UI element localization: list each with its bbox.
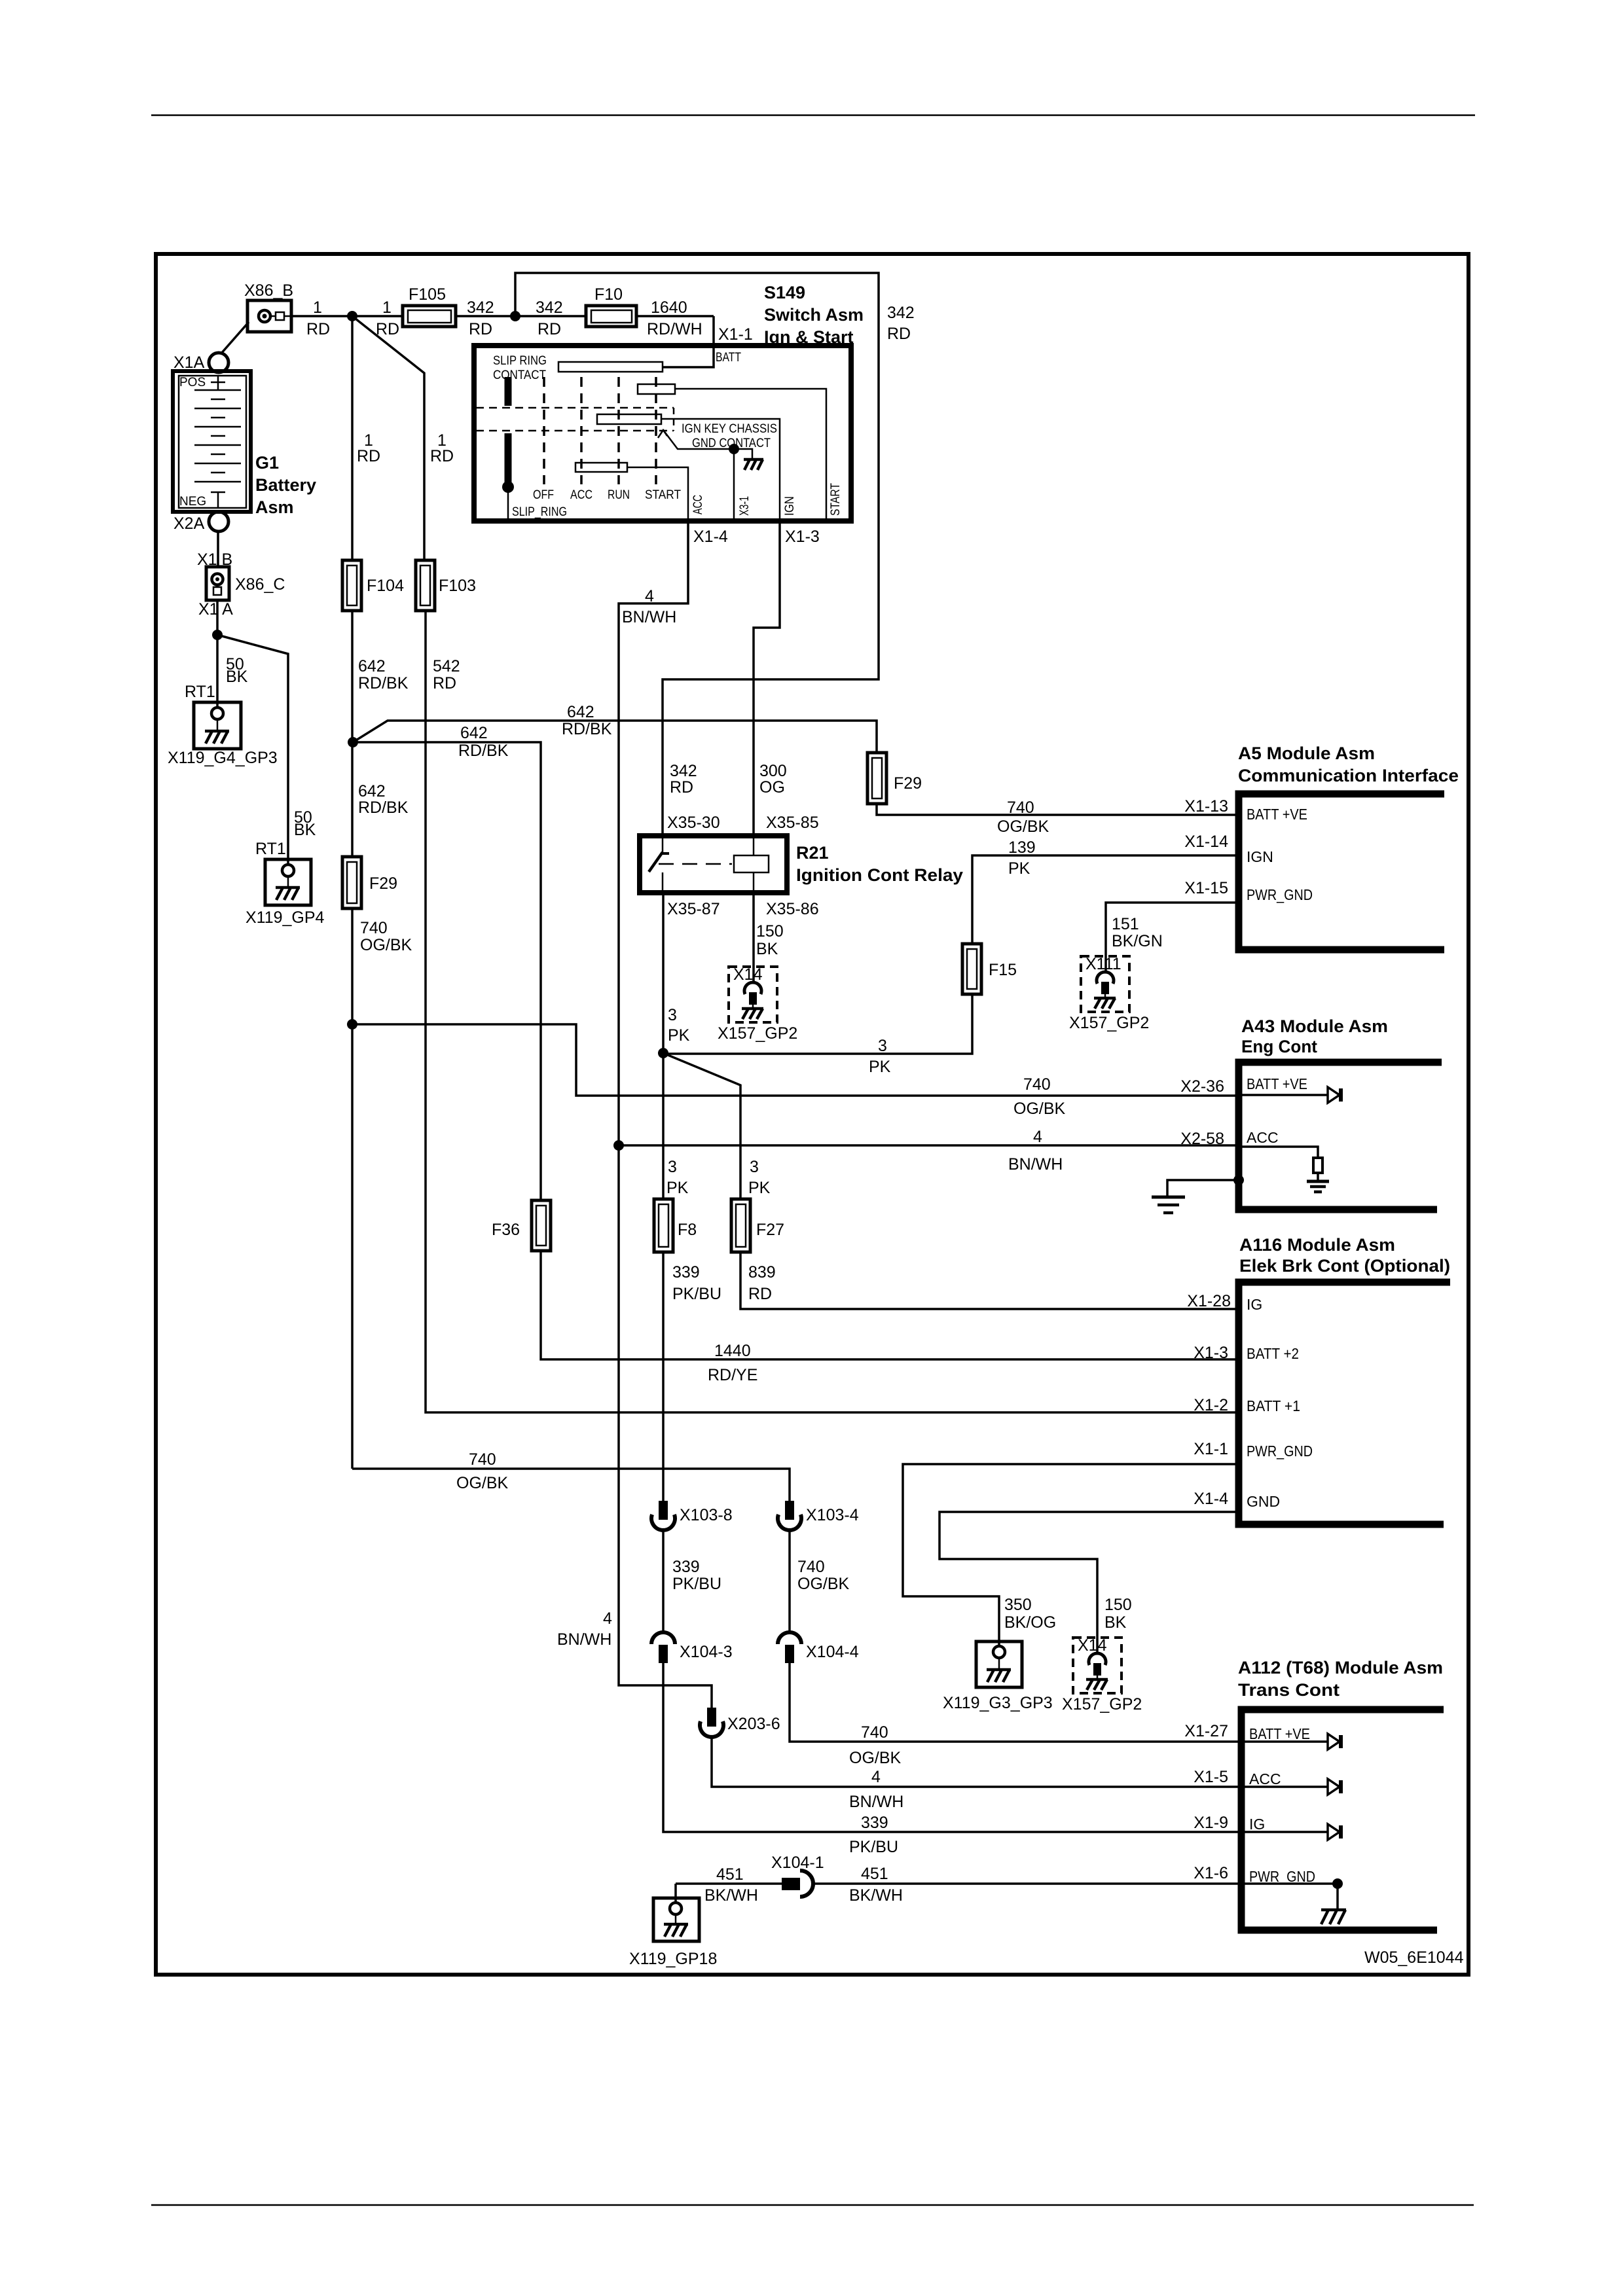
svg-text:A43 Module Asm: A43 Module Asm <box>1241 1016 1388 1036</box>
wire 3 PK to F8 <box>662 1053 665 1199</box>
svg-text:PK/BU: PK/BU <box>672 1285 721 1303</box>
svg-text:X86_C: X86_C <box>235 575 285 594</box>
svg-text:RD: RD <box>538 320 561 338</box>
wire 451 BK/WH to A112 X1-6 <box>812 1882 1239 1885</box>
svg-text:X1-14: X1-14 <box>1184 833 1228 851</box>
svg-text:F29: F29 <box>894 774 922 793</box>
connector X104-4 <box>778 1632 801 1663</box>
wire F104 to junction 642 <box>351 611 354 742</box>
wire to X119_GP4 branch <box>217 635 288 865</box>
svg-text:839: 839 <box>748 1263 776 1282</box>
svg-text:R21: R21 <box>796 843 829 863</box>
svg-text:X2-58: X2-58 <box>1180 1130 1224 1148</box>
svg-text:PK/BU: PK/BU <box>849 1838 898 1856</box>
wire A116 X1-1 PWR_GND to X119_G3_GP3 <box>903 1464 1239 1646</box>
svg-text:X1-1: X1-1 <box>718 325 753 344</box>
ground A112 chassis <box>1321 1910 1346 1924</box>
svg-text:RUN: RUN <box>608 488 630 502</box>
svg-text:342: 342 <box>467 298 494 317</box>
slip ring contact bar BATT <box>558 362 663 372</box>
svg-text:PK: PK <box>748 1179 771 1197</box>
svg-text:X119_GP4: X119_GP4 <box>246 908 325 927</box>
wire relay X35-86 to X14 ground <box>752 893 755 983</box>
node junction 4 BN/WH <box>613 1140 624 1151</box>
svg-text:X14: X14 <box>1078 1636 1107 1655</box>
svg-text:A116 Module Asm: A116 Module Asm <box>1239 1235 1395 1255</box>
svg-text:F8: F8 <box>678 1221 697 1239</box>
svg-text:X1-5: X1-5 <box>1194 1768 1228 1786</box>
relay R21 <box>640 836 963 893</box>
wire X86_B to X1A <box>221 322 249 354</box>
wire X103-4 to X104-4 <box>788 1531 791 1632</box>
svg-text:1: 1 <box>382 298 392 317</box>
svg-text:X104-1: X104-1 <box>771 1854 824 1872</box>
svg-text:Trans Cont: Trans Cont <box>1238 1680 1340 1700</box>
svg-text:3: 3 <box>878 1037 887 1055</box>
svg-text:X1-15: X1-15 <box>1184 879 1228 897</box>
svg-text:X1-1: X1-1 <box>1194 1440 1228 1458</box>
node junction at 538 <box>347 311 357 321</box>
svg-text:740: 740 <box>469 1450 496 1469</box>
svg-text:ACC: ACC <box>570 488 593 502</box>
svg-text:RD: RD <box>887 325 911 343</box>
svg-text:IGN: IGN <box>783 496 797 516</box>
diode A43 batt <box>1239 1094 1328 1096</box>
wire F27 to A116 X1-28 839 RD <box>740 1252 1239 1309</box>
wire 4 BN/WH to A43 X2-58 <box>619 1144 1239 1147</box>
svg-text:X1-27: X1-27 <box>1184 1722 1228 1740</box>
svg-text:3: 3 <box>668 1158 677 1176</box>
svg-text:X35-87: X35-87 <box>667 900 720 918</box>
ground X14 lower <box>1073 1636 1122 1693</box>
svg-text:3: 3 <box>750 1158 759 1176</box>
svg-text:740: 740 <box>1023 1075 1051 1094</box>
svg-text:151: 151 <box>1112 915 1139 933</box>
wire IGN X1-3 to relay X35-85 <box>754 521 780 836</box>
svg-text:RD: RD <box>357 447 380 465</box>
node junction 740 <box>347 1019 357 1030</box>
fuse F105 <box>403 285 456 327</box>
svg-text:OG/BK: OG/BK <box>797 1575 850 1593</box>
svg-text:BN/WH: BN/WH <box>557 1630 611 1649</box>
ign key chassis gnd contact <box>658 422 777 520</box>
svg-text:ACC: ACC <box>1249 1770 1281 1787</box>
svg-text:150: 150 <box>756 922 784 941</box>
wire junction538 diagonal to F103 <box>352 316 424 560</box>
svg-text:RD/BK: RD/BK <box>562 720 612 738</box>
wire X104-4 to A112 X1-27 740 OG/BK <box>790 1663 1239 1742</box>
svg-text:X119_G4_GP3: X119_G4_GP3 <box>168 749 278 767</box>
wire F15 to A5 X1-14 139 PK <box>972 855 1239 944</box>
svg-text:X157_GP2: X157_GP2 <box>1069 1014 1149 1032</box>
svg-text:OG/BK: OG/BK <box>849 1749 902 1767</box>
svg-text:139: 139 <box>1008 838 1036 857</box>
svg-text:RT1: RT1 <box>255 840 286 858</box>
svg-text:BK/WH: BK/WH <box>704 1886 758 1905</box>
svg-text:1440: 1440 <box>714 1342 751 1360</box>
svg-text:X157_GP2: X157_GP2 <box>1062 1695 1142 1713</box>
svg-text:BN/WH: BN/WH <box>849 1793 903 1811</box>
ground RT1 X119_GP4 <box>246 840 325 927</box>
wire A116 X1-4 GND to X14 lower <box>939 1512 1239 1654</box>
svg-text:X35-30: X35-30 <box>667 814 720 832</box>
contact bar IGN branch <box>597 414 661 424</box>
svg-text:642: 642 <box>460 724 488 742</box>
svg-text:BK: BK <box>294 821 316 839</box>
svg-text:START: START <box>829 483 843 516</box>
wire BATT pin into switch <box>663 316 714 367</box>
switch S149 box <box>474 283 864 521</box>
svg-text:RD: RD <box>469 320 492 338</box>
svg-text:300: 300 <box>759 762 787 780</box>
wire 342 RD top loop <box>515 273 879 836</box>
svg-text:X1A: X1A <box>173 353 205 372</box>
wire F10 to X1-1 BATT <box>636 315 714 317</box>
svg-text:F15: F15 <box>989 961 1017 979</box>
ground X14 upper <box>729 965 777 1022</box>
svg-text:BK/OG: BK/OG <box>1004 1613 1056 1632</box>
svg-text:F103: F103 <box>439 577 476 595</box>
node junction at 787 <box>510 311 520 321</box>
svg-text:F104: F104 <box>367 577 404 595</box>
svg-text:IG: IG <box>1247 1296 1262 1313</box>
svg-text:IGN KEY CHASSIS: IGN KEY CHASSIS <box>682 422 777 436</box>
svg-text:BK: BK <box>1104 1613 1127 1632</box>
svg-text:RD/BK: RD/BK <box>458 742 509 760</box>
svg-text:START: START <box>645 488 681 502</box>
svg-text:740: 740 <box>861 1723 888 1742</box>
svg-text:X2A: X2A <box>173 514 205 533</box>
svg-text:PK: PK <box>1008 859 1030 878</box>
svg-text:740: 740 <box>360 919 388 937</box>
fuse F29 left <box>342 857 397 908</box>
svg-text:X103-8: X103-8 <box>680 1506 733 1524</box>
node junction 50BK <box>212 630 223 640</box>
svg-text:X35-86: X35-86 <box>766 900 819 918</box>
wire X86_B to F105 run <box>291 315 403 317</box>
svg-text:Battery: Battery <box>255 475 316 495</box>
svg-text:1: 1 <box>313 298 322 317</box>
module A116 Elek Brk Cont <box>1187 1235 1450 1524</box>
node A112 gnd <box>1332 1878 1343 1889</box>
wire 4 BN/WH down to X203-6 <box>619 1145 712 1708</box>
resistor A43 acc pullup <box>1239 1147 1318 1158</box>
svg-text:F10: F10 <box>594 285 623 304</box>
svg-text:4: 4 <box>1033 1128 1042 1146</box>
wire F105 to F10 <box>456 315 586 317</box>
svg-text:RD: RD <box>376 320 399 338</box>
svg-text:RT1: RT1 <box>185 683 215 701</box>
svg-text:GND: GND <box>1247 1493 1280 1510</box>
wire 740 branch to X103-4 <box>352 1469 790 1501</box>
diode A112 acc <box>1241 1785 1328 1788</box>
wire F8 down 339 PK/BU <box>662 1252 665 1501</box>
svg-text:RD/WH: RD/WH <box>647 320 702 338</box>
battery G1 <box>173 371 316 517</box>
svg-text:X1-9: X1-9 <box>1194 1814 1228 1832</box>
node junction 3 PK <box>658 1048 668 1058</box>
ground A43 internal <box>1307 1181 1329 1192</box>
svg-text:A5 Module Asm: A5 Module Asm <box>1238 744 1375 763</box>
svg-text:NEG: NEG <box>179 495 206 509</box>
svg-text:X1-28: X1-28 <box>1187 1292 1231 1310</box>
svg-text:X119_G3_GP3: X119_G3_GP3 <box>943 1694 1053 1712</box>
svg-text:740: 740 <box>1007 798 1034 817</box>
connector X203-6 <box>700 1708 723 1737</box>
svg-text:S149: S149 <box>764 283 805 302</box>
svg-text:PK: PK <box>869 1058 891 1076</box>
svg-text:BATT: BATT <box>716 351 741 365</box>
svg-text:OG/BK: OG/BK <box>997 817 1049 836</box>
fuse F104 <box>342 560 404 611</box>
node X1A <box>173 353 228 372</box>
module A43 Eng Cont <box>1180 1016 1442 1210</box>
svg-text:RD: RD <box>748 1285 772 1303</box>
wire F29b to A5 X1-13 <box>877 804 1239 815</box>
svg-text:X1-3: X1-3 <box>785 528 820 546</box>
svg-text:4: 4 <box>871 1768 881 1786</box>
svg-text:150: 150 <box>1104 1596 1132 1614</box>
wire slip ring to box bottom <box>507 487 509 520</box>
svg-text:SLIP_RING: SLIP_RING <box>512 505 567 519</box>
svg-text:POS: POS <box>179 376 206 389</box>
connector X86_C <box>197 550 285 619</box>
wire 642 lower branch to F36 <box>353 742 541 1200</box>
svg-text:OG/BK: OG/BK <box>1013 1100 1066 1118</box>
svg-text:F105: F105 <box>409 285 446 304</box>
svg-text:BK/WH: BK/WH <box>849 1886 903 1905</box>
svg-text:F29: F29 <box>369 874 397 893</box>
svg-text:X1-3: X1-3 <box>1194 1344 1228 1362</box>
svg-text:IGN: IGN <box>1247 848 1273 865</box>
svg-text:X1-4: X1-4 <box>1194 1490 1228 1508</box>
wire 3 PK to F15 <box>663 994 972 1054</box>
svg-text:4: 4 <box>645 587 654 605</box>
fuse F27 <box>731 1199 784 1252</box>
node slip ring <box>502 481 514 493</box>
svg-text:ACC: ACC <box>1247 1129 1279 1146</box>
svg-text:1640: 1640 <box>651 298 687 317</box>
wire X86_C down <box>216 600 219 708</box>
svg-text:ACC: ACC <box>691 495 705 514</box>
svg-text:Communication Interface: Communication Interface <box>1238 766 1459 785</box>
svg-text:PK: PK <box>666 1179 689 1197</box>
fuse F36 <box>492 1200 551 1251</box>
wire F103 down 542 RD to A116 X1-2 <box>426 611 1239 1412</box>
wire junction to F29a <box>351 742 354 857</box>
svg-text:PWR_GND: PWR_GND <box>1247 1443 1313 1460</box>
svg-text:X1-4: X1-4 <box>693 528 728 546</box>
svg-text:SLIP RING: SLIP RING <box>493 354 547 368</box>
svg-text:BATT +1: BATT +1 <box>1247 1397 1300 1414</box>
wire X119_GP18 up to 451 run <box>674 1884 677 1903</box>
svg-text:BATT +VE: BATT +VE <box>1249 1725 1310 1742</box>
svg-text:Switch Asm: Switch Asm <box>764 305 864 325</box>
svg-text:RD: RD <box>430 447 454 465</box>
connector X103-4 <box>778 1501 801 1530</box>
module A5 Communication Interface <box>1184 744 1459 950</box>
node X2A <box>173 512 228 533</box>
svg-text:X14: X14 <box>733 965 763 984</box>
svg-text:X103-4: X103-4 <box>806 1506 859 1524</box>
wire X203-6 to A112 X1-5 <box>712 1738 1239 1787</box>
connector X104-1 <box>771 1854 824 1897</box>
svg-text:451: 451 <box>716 1865 744 1884</box>
contact bar START branch <box>638 384 675 394</box>
svg-text:X119_GP18: X119_GP18 <box>629 1950 717 1968</box>
svg-text:IG: IG <box>1249 1816 1265 1833</box>
module A112 Trans Cont <box>1184 1658 1444 1930</box>
svg-text:X104-4: X104-4 <box>806 1643 859 1661</box>
svg-text:RD: RD <box>433 674 456 692</box>
diode A112 batt <box>1241 1740 1328 1743</box>
svg-text:PWR_GND: PWR_GND <box>1247 886 1313 903</box>
svg-text:Ignition Cont Relay: Ignition Cont Relay <box>796 865 963 885</box>
svg-text:BK: BK <box>226 668 248 686</box>
ground X111 <box>1081 955 1129 1012</box>
contact bar ACC branch <box>575 463 627 472</box>
svg-text:BN/WH: BN/WH <box>1008 1155 1063 1174</box>
svg-text:PK: PK <box>668 1026 690 1045</box>
fuse F103 <box>416 560 476 611</box>
svg-text:RD/YE: RD/YE <box>708 1366 757 1384</box>
svg-text:Asm: Asm <box>255 497 294 517</box>
svg-text:339: 339 <box>672 1558 700 1576</box>
wire 3 PK diagonal to F27 <box>663 1053 740 1199</box>
svg-text:X1-2: X1-2 <box>1194 1396 1228 1414</box>
wire X104-3 to A112 X1-9 339 PK/BU <box>663 1663 1239 1832</box>
wire junction538 down to F104 <box>351 316 354 560</box>
svg-text:PK/BU: PK/BU <box>672 1575 721 1593</box>
svg-text:CONTACT: CONTACT <box>493 368 546 382</box>
wire A43 gnd stub <box>1167 1180 1239 1196</box>
svg-text:RD/BK: RD/BK <box>358 674 409 692</box>
svg-text:BATT +VE: BATT +VE <box>1247 806 1307 823</box>
node A43 pwr gnd <box>1233 1175 1244 1185</box>
wire 740 branch to A43 X2-36 <box>352 1024 1239 1096</box>
wire 151 BK/GN A5 X1-15 to X111 <box>1106 903 1239 973</box>
svg-text:BK/GN: BK/GN <box>1112 932 1163 950</box>
connector X86_B <box>244 281 293 332</box>
svg-text:OG: OG <box>759 778 785 797</box>
ground X119_GP18 <box>653 1898 699 1941</box>
page border frame <box>156 254 1468 1975</box>
svg-text:BK: BK <box>756 940 778 958</box>
svg-text:642: 642 <box>567 703 594 721</box>
slip ring thick bar <box>505 377 512 406</box>
wire relay X35-87 down 3 PK <box>662 893 665 1053</box>
svg-text:542: 542 <box>433 657 460 675</box>
fuse F29 right <box>867 753 922 804</box>
bottom rule <box>151 2204 1474 2206</box>
svg-text:PWR_GND: PWR_GND <box>1249 1868 1315 1885</box>
svg-text:339: 339 <box>861 1814 888 1832</box>
wire A112 pwr gnd internal <box>1241 1882 1338 1885</box>
fuse F15 <box>962 944 1017 994</box>
node junction 642 <box>348 737 358 747</box>
fuse F8 <box>654 1199 697 1252</box>
svg-text:451: 451 <box>861 1865 888 1883</box>
fuse F10 <box>586 285 636 327</box>
svg-text:BATT +VE: BATT +VE <box>1247 1075 1307 1092</box>
svg-text:342: 342 <box>536 298 563 317</box>
svg-text:F36: F36 <box>492 1221 520 1239</box>
svg-text:BN/WH: BN/WH <box>622 608 676 626</box>
dashed key band <box>476 407 674 409</box>
ground A43 chassis <box>1152 1197 1185 1213</box>
svg-text:OFF: OFF <box>533 488 554 502</box>
svg-text:OG/BK: OG/BK <box>456 1474 509 1492</box>
svg-text:RD: RD <box>306 320 330 338</box>
svg-text:Eng Cont: Eng Cont <box>1241 1037 1317 1056</box>
svg-text:X3-1: X3-1 <box>738 496 752 516</box>
ground X119_G3_GP3 <box>976 1641 1022 1687</box>
svg-text:350: 350 <box>1004 1596 1032 1614</box>
svg-text:RD: RD <box>670 778 693 797</box>
svg-text:X203-6: X203-6 <box>727 1715 780 1733</box>
svg-text:342: 342 <box>670 762 697 780</box>
svg-text:X2-36: X2-36 <box>1180 1077 1224 1096</box>
svg-text:X157_GP2: X157_GP2 <box>718 1024 797 1043</box>
svg-text:OG/BK: OG/BK <box>360 936 412 954</box>
svg-text:X1 A: X1 A <box>198 600 233 619</box>
connector X104-3 <box>651 1632 675 1663</box>
svg-text:642: 642 <box>358 782 386 800</box>
svg-text:W05_6E1044: W05_6E1044 <box>1364 1948 1464 1967</box>
dashed key positions <box>543 377 545 484</box>
wire 451 BK/WH left segment <box>676 1882 783 1885</box>
ground RT1 X119_G4_GP3 <box>168 683 278 767</box>
wire X2A to X86_C <box>217 531 219 567</box>
diode A112 ig <box>1241 1831 1328 1833</box>
svg-text:339: 339 <box>672 1263 700 1282</box>
wire X103-8 to X104-3 <box>662 1531 665 1632</box>
svg-text:BATT +2: BATT +2 <box>1247 1345 1299 1362</box>
wire ACC X1-4 down 4 BN/WH <box>619 521 688 1145</box>
svg-text:X104-3: X104-3 <box>680 1643 733 1661</box>
top rule <box>151 115 1475 117</box>
svg-text:X1-6: X1-6 <box>1194 1864 1228 1882</box>
svg-text:G1: G1 <box>255 453 279 473</box>
wire 642 upper branch to F29b <box>353 721 877 753</box>
svg-text:A112 (T68) Module Asm: A112 (T68) Module Asm <box>1238 1658 1443 1677</box>
svg-text:4: 4 <box>603 1609 612 1628</box>
svg-text:X86_B: X86_B <box>244 281 293 300</box>
svg-text:642: 642 <box>358 657 386 675</box>
svg-text:740: 740 <box>797 1558 825 1576</box>
svg-text:F27: F27 <box>756 1221 784 1239</box>
svg-text:X1-13: X1-13 <box>1184 797 1228 816</box>
svg-text:Elek Brk Cont (Optional): Elek Brk Cont (Optional) <box>1239 1256 1450 1276</box>
svg-text:RD/BK: RD/BK <box>358 798 409 817</box>
svg-text:342: 342 <box>887 304 915 322</box>
svg-text:3: 3 <box>668 1006 677 1024</box>
wire F29a down 740 OG/BK <box>351 908 354 1469</box>
connector X103-8 <box>651 1501 675 1530</box>
wire F36 to A116 X1-3 1440 RD/YE <box>541 1251 1239 1359</box>
svg-text:X35-85: X35-85 <box>766 814 819 832</box>
